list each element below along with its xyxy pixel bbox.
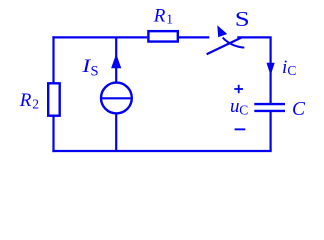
label C [292,99,306,120]
svg-text:1: 1 [166,11,173,26]
svg-text:C: C [292,99,306,120]
svg-text:C: C [239,103,248,118]
current iC arrowhead [267,63,275,76]
svg-text:S: S [235,9,250,32]
switch S motion arrowhead [217,25,227,37]
wire R1 to switch [179,36,210,38]
label plus sign [234,85,243,93]
wire left vertical lower [52,116,54,152]
label IS [81,55,98,80]
capacitor C top plate [254,103,285,105]
label minus sign [235,128,246,130]
label R2 [19,90,39,112]
label S (switch) [235,9,250,32]
wire top-left horizontal [52,36,147,38]
current source IS circle [101,83,132,114]
label R1 [153,6,173,27]
svg-text:C: C [287,63,296,78]
switch S arc [223,38,245,48]
label uC [230,96,248,118]
wire current-source branch upper [115,37,117,82]
resistor R2 [48,83,60,115]
current source IS chord [101,97,132,99]
wire bottom horizontal [52,150,271,152]
wire switch to right corner and down [237,37,270,103]
resistor R1 [148,31,177,41]
svg-text:S: S [91,64,99,80]
wire left vertical upper [52,36,54,83]
wire capacitor to bottom [270,112,272,152]
svg-text:u: u [230,96,240,117]
svg-text:R: R [19,90,32,111]
svg-text:R: R [153,6,166,27]
label iC [282,57,296,78]
capacitor C bottom plate [254,110,285,112]
wire current-source branch lower [115,114,117,152]
current source IS arrowhead [111,54,121,69]
svg-text:2: 2 [32,97,39,112]
switch S blade [207,38,242,55]
